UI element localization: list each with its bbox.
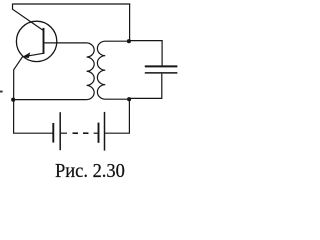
svg-text:Рис. 2.30: Рис. 2.30 [55, 160, 125, 182]
